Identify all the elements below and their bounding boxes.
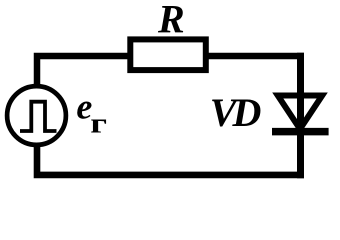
wire: right vertical through diode VD xyxy=(297,53,304,178)
diode VD (triangle anode) xyxy=(278,96,322,130)
wire: bottom return segment xyxy=(37,140,304,175)
svg-text:г: г xyxy=(90,109,107,140)
wire: top-right segment from resistor to diode branch xyxy=(205,53,304,60)
pulse generator eG (circle) xyxy=(7,86,66,145)
wire: top-left segment from generator to resistor xyxy=(37,56,130,95)
pulse generator eG (pulse symbol) xyxy=(20,102,57,131)
svg-text:VD: VD xyxy=(210,90,261,135)
resistor R xyxy=(130,39,206,70)
diode VD (cathode bar) xyxy=(272,128,329,136)
svg-text:R: R xyxy=(157,0,185,42)
